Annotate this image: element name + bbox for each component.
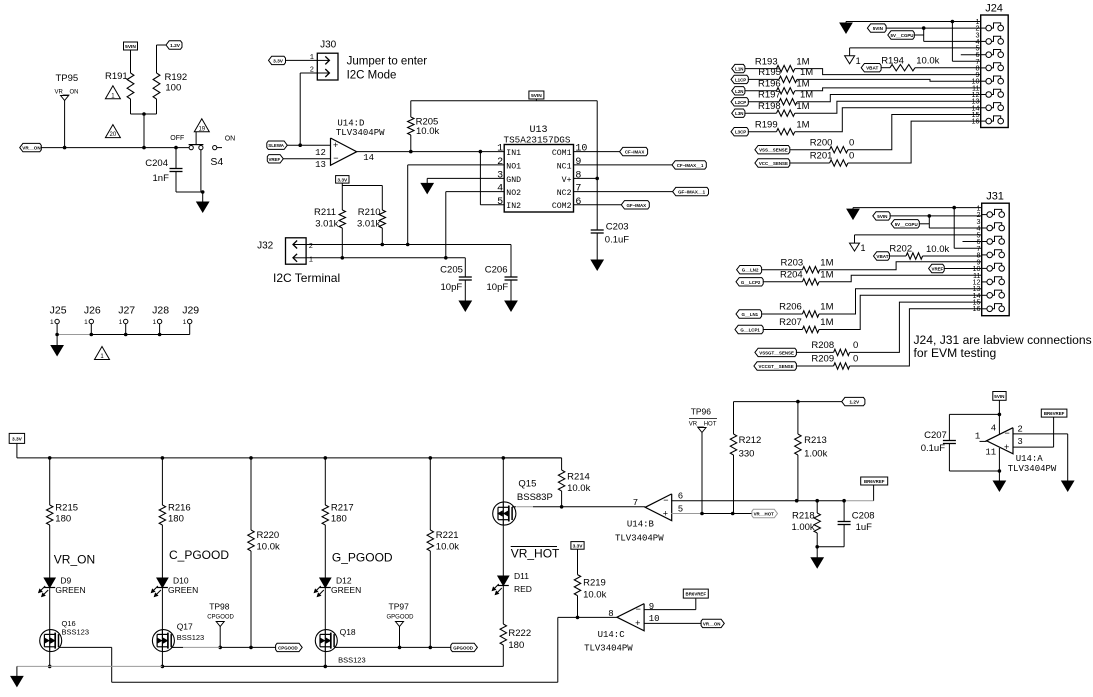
svg-text:VCC__SENSE: VCC__SENSE bbox=[759, 161, 788, 166]
svg-text:R212: R212 bbox=[739, 435, 762, 446]
svg-text:19: 19 bbox=[198, 126, 205, 132]
svg-text:10pF: 10pF bbox=[441, 282, 463, 293]
svg-text:Jumper to enter: Jumper to enter bbox=[347, 56, 428, 68]
svg-text:6: 6 bbox=[678, 491, 683, 501]
svg-text:8: 8 bbox=[575, 170, 581, 181]
svg-text:J24: J24 bbox=[985, 3, 1003, 15]
svg-text:1M: 1M bbox=[800, 90, 813, 101]
svg-text:J26: J26 bbox=[84, 305, 101, 317]
svg-text:10pF: 10pF bbox=[487, 282, 509, 293]
svg-text:VSSGT__SENSE: VSSGT__SENSE bbox=[759, 350, 794, 355]
svg-text:TLV3404PW: TLV3404PW bbox=[336, 128, 385, 138]
svg-text:Q17: Q17 bbox=[177, 622, 193, 632]
svg-text:1M: 1M bbox=[796, 56, 809, 67]
svg-text:1: 1 bbox=[310, 54, 314, 62]
svg-text:5: 5 bbox=[678, 504, 683, 514]
svg-text:100: 100 bbox=[165, 83, 181, 94]
svg-text:GREEN: GREEN bbox=[331, 585, 361, 595]
svg-text:14: 14 bbox=[363, 153, 374, 163]
svg-text:L3N: L3N bbox=[735, 111, 743, 116]
svg-text:VCCGT__SENSE: VCCGT__SENSE bbox=[759, 364, 794, 369]
svg-text:VREF: VREF bbox=[268, 157, 280, 162]
svg-text:C208: C208 bbox=[852, 511, 875, 522]
svg-text:180: 180 bbox=[168, 514, 184, 525]
svg-text:GREEN: GREEN bbox=[168, 585, 198, 595]
svg-text:7: 7 bbox=[575, 184, 581, 195]
svg-text:R209: R209 bbox=[811, 354, 834, 365]
svg-text:−: − bbox=[663, 495, 668, 505]
svg-text:VR__ON: VR__ON bbox=[703, 621, 721, 626]
svg-text:1M: 1M bbox=[800, 67, 813, 78]
svg-text:G_PGOOD: G_PGOOD bbox=[332, 551, 393, 565]
svg-text:RED: RED bbox=[514, 584, 532, 594]
svg-text:L1CP: L1CP bbox=[735, 77, 746, 82]
svg-text:C203: C203 bbox=[606, 222, 629, 233]
svg-text:J29: J29 bbox=[182, 305, 199, 317]
svg-text:C207: C207 bbox=[924, 430, 947, 441]
svg-text:CF−IMAX: CF−IMAX bbox=[625, 150, 644, 155]
svg-text:G__LCP2: G__LCP2 bbox=[741, 280, 761, 285]
svg-text:D11: D11 bbox=[514, 571, 529, 581]
svg-text:J28: J28 bbox=[152, 305, 169, 317]
svg-text:L1N: L1N bbox=[735, 67, 743, 72]
svg-text:TS5A23157DGS: TS5A23157DGS bbox=[504, 134, 571, 145]
svg-text:for EVM testing: for EVM testing bbox=[914, 346, 997, 360]
svg-text:COM2: COM2 bbox=[552, 202, 572, 211]
svg-text:R194: R194 bbox=[881, 56, 904, 67]
svg-text:BR6VREF: BR6VREF bbox=[1044, 411, 1065, 416]
svg-text:6: 6 bbox=[575, 197, 581, 208]
svg-text:1: 1 bbox=[856, 56, 861, 66]
svg-text:0.1uF: 0.1uF bbox=[921, 443, 945, 454]
svg-text:1M: 1M bbox=[820, 317, 833, 328]
svg-text:1M: 1M bbox=[820, 270, 833, 281]
svg-text:4: 4 bbox=[991, 424, 996, 434]
svg-text:5VIN: 5VIN bbox=[994, 394, 1005, 399]
svg-text:R220: R220 bbox=[257, 530, 280, 541]
svg-text:CPGOOD: CPGOOD bbox=[207, 615, 234, 621]
svg-text:1: 1 bbox=[84, 319, 88, 326]
svg-text:I2C Mode: I2C Mode bbox=[347, 70, 397, 82]
svg-text:1: 1 bbox=[183, 319, 187, 326]
svg-text:GREEN: GREEN bbox=[55, 585, 85, 595]
svg-text:10.0k: 10.0k bbox=[567, 483, 590, 494]
svg-text:BR6VREF: BR6VREF bbox=[864, 479, 885, 484]
svg-text:C204: C204 bbox=[145, 158, 168, 169]
svg-text:GF−IMAX: GF−IMAX bbox=[626, 203, 646, 208]
svg-text:R200: R200 bbox=[810, 137, 833, 148]
svg-text:J30: J30 bbox=[320, 40, 337, 51]
svg-text:1.00k: 1.00k bbox=[804, 449, 827, 460]
svg-text:1: 1 bbox=[975, 432, 980, 442]
svg-text:R195: R195 bbox=[758, 67, 781, 78]
svg-text:U14:A: U14:A bbox=[1016, 454, 1044, 464]
svg-text:BSS123: BSS123 bbox=[62, 628, 90, 637]
svg-text:3.01k: 3.01k bbox=[357, 219, 380, 230]
svg-text:BSS123: BSS123 bbox=[338, 656, 366, 665]
svg-text:R221: R221 bbox=[436, 530, 459, 541]
svg-text:3.01k: 3.01k bbox=[315, 219, 338, 230]
svg-text:U14:B: U14:B bbox=[627, 520, 655, 530]
svg-text:VR__HOT: VR__HOT bbox=[689, 422, 717, 428]
svg-text:G__LCP1: G__LCP1 bbox=[740, 328, 760, 333]
svg-text:R215: R215 bbox=[55, 503, 78, 514]
svg-text:R208: R208 bbox=[811, 340, 834, 351]
svg-text:J32: J32 bbox=[257, 241, 274, 252]
svg-text:5V__CGPU: 5V__CGPU bbox=[895, 222, 918, 227]
svg-text:BSS83P: BSS83P bbox=[517, 492, 553, 503]
svg-text:1M: 1M bbox=[796, 79, 809, 90]
svg-text:0.1uF: 0.1uF bbox=[605, 235, 629, 246]
svg-text:IN2: IN2 bbox=[506, 202, 521, 211]
svg-text:10.0k: 10.0k bbox=[257, 542, 280, 553]
svg-text:3.3V: 3.3V bbox=[573, 543, 584, 549]
svg-text:R192: R192 bbox=[165, 72, 188, 83]
svg-text:R217: R217 bbox=[331, 503, 354, 514]
svg-text:R199: R199 bbox=[755, 119, 778, 130]
svg-text:NC2: NC2 bbox=[557, 189, 572, 198]
svg-text:CF−IMAX__1: CF−IMAX__1 bbox=[677, 163, 704, 168]
svg-text:1: 1 bbox=[497, 144, 503, 155]
svg-text:−: − bbox=[1005, 428, 1010, 438]
svg-text:180: 180 bbox=[55, 514, 71, 525]
svg-text:R203: R203 bbox=[781, 257, 804, 268]
svg-text:VR__ON: VR__ON bbox=[55, 90, 79, 96]
svg-text:1: 1 bbox=[50, 319, 54, 326]
svg-text:1.2V: 1.2V bbox=[170, 43, 181, 49]
svg-text:TP98: TP98 bbox=[209, 602, 230, 612]
svg-text:180: 180 bbox=[508, 640, 524, 651]
svg-text:1: 1 bbox=[119, 319, 123, 326]
svg-text:1uF: 1uF bbox=[856, 522, 873, 533]
svg-text:9: 9 bbox=[649, 602, 654, 612]
svg-text:12: 12 bbox=[315, 148, 326, 158]
svg-text:COM1: COM1 bbox=[552, 149, 572, 158]
svg-text:TLV3404PW: TLV3404PW bbox=[584, 644, 633, 654]
svg-text:1: 1 bbox=[152, 319, 156, 326]
svg-text:5: 5 bbox=[497, 197, 503, 208]
svg-text:5VIN: 5VIN bbox=[873, 26, 884, 31]
svg-text:R211: R211 bbox=[314, 207, 336, 218]
svg-text:R202: R202 bbox=[889, 244, 912, 255]
svg-text:BR6VREF: BR6VREF bbox=[686, 592, 707, 597]
svg-text:10.0k: 10.0k bbox=[926, 244, 949, 255]
svg-text:L2N: L2N bbox=[735, 89, 743, 94]
svg-text:10.0k: 10.0k bbox=[436, 542, 459, 553]
svg-text:2: 2 bbox=[1017, 425, 1022, 435]
svg-text:R204: R204 bbox=[780, 270, 803, 281]
svg-text:3.3V: 3.3V bbox=[337, 177, 348, 183]
svg-text:J24, J31 are labview connectio: J24, J31 are labview connections bbox=[914, 333, 1092, 347]
svg-text:TLV3404PW: TLV3404PW bbox=[615, 534, 664, 544]
svg-text:V+: V+ bbox=[562, 176, 572, 185]
svg-text:R210: R210 bbox=[358, 207, 381, 218]
svg-text:5VIN: 5VIN bbox=[531, 93, 542, 99]
svg-text:R197: R197 bbox=[758, 90, 781, 101]
svg-text:VREF: VREF bbox=[932, 267, 944, 272]
svg-text:5VIN: 5VIN bbox=[877, 214, 888, 219]
svg-text:5V__CGPU: 5V__CGPU bbox=[891, 33, 914, 38]
svg-text:R216: R216 bbox=[168, 503, 191, 514]
svg-text:1.2V: 1.2V bbox=[849, 400, 860, 406]
svg-text:+: + bbox=[1004, 442, 1009, 452]
svg-text:L3CP: L3CP bbox=[735, 130, 746, 135]
svg-text:1M: 1M bbox=[820, 302, 833, 313]
svg-text:BSS123: BSS123 bbox=[177, 633, 205, 642]
svg-text:9: 9 bbox=[575, 157, 581, 168]
svg-text:R198: R198 bbox=[758, 101, 781, 112]
svg-text:1M: 1M bbox=[820, 257, 833, 268]
svg-text:U14:D: U14:D bbox=[337, 119, 364, 129]
svg-text:J31: J31 bbox=[986, 191, 1004, 203]
svg-text:1.00k: 1.00k bbox=[791, 522, 814, 533]
svg-text:10.0k: 10.0k bbox=[583, 590, 606, 601]
svg-text:20: 20 bbox=[110, 132, 117, 138]
svg-text:NC1: NC1 bbox=[557, 162, 572, 171]
svg-text:1nF: 1nF bbox=[153, 173, 170, 184]
svg-text:IN1: IN1 bbox=[506, 149, 521, 158]
svg-text:I2C Terminal: I2C Terminal bbox=[273, 271, 340, 285]
svg-text:NO1: NO1 bbox=[506, 162, 521, 171]
svg-text:+: + bbox=[635, 618, 640, 628]
svg-text:Q15: Q15 bbox=[518, 479, 536, 490]
svg-text:R213: R213 bbox=[804, 435, 827, 446]
svg-text:R191: R191 bbox=[105, 71, 128, 82]
svg-text:10.0k: 10.0k bbox=[916, 56, 939, 67]
svg-text:3: 3 bbox=[497, 170, 503, 181]
svg-text:R207: R207 bbox=[779, 317, 802, 328]
svg-text:7: 7 bbox=[633, 498, 638, 508]
svg-text:VR__ON: VR__ON bbox=[22, 146, 41, 151]
svg-text:180: 180 bbox=[331, 514, 347, 525]
svg-text:C205: C205 bbox=[440, 265, 463, 276]
svg-text:ON: ON bbox=[225, 136, 236, 143]
svg-text:VR_HOT: VR_HOT bbox=[511, 547, 560, 561]
svg-text:0: 0 bbox=[849, 151, 854, 162]
svg-text:G__LN1: G__LN1 bbox=[742, 312, 759, 317]
svg-text:3.3V: 3.3V bbox=[12, 436, 23, 442]
svg-text:TP97: TP97 bbox=[389, 602, 410, 612]
svg-text:0: 0 bbox=[853, 340, 858, 351]
svg-text:2: 2 bbox=[497, 157, 503, 168]
svg-text:5VIN: 5VIN bbox=[125, 44, 136, 50]
svg-text:3.3V: 3.3V bbox=[273, 58, 284, 64]
svg-text:TLV3404PW: TLV3404PW bbox=[1008, 464, 1057, 474]
svg-text:C_PGOOD: C_PGOOD bbox=[169, 548, 229, 562]
svg-text:11: 11 bbox=[985, 448, 996, 458]
svg-text:GND: GND bbox=[506, 176, 521, 185]
svg-text:VR__HOT: VR__HOT bbox=[754, 512, 775, 517]
svg-text:10: 10 bbox=[649, 614, 660, 624]
svg-text:R193: R193 bbox=[755, 56, 778, 67]
svg-text:1: 1 bbox=[861, 243, 866, 253]
svg-text:0: 0 bbox=[853, 354, 858, 365]
svg-text:L2CP: L2CP bbox=[735, 100, 746, 105]
svg-text:S4: S4 bbox=[210, 156, 223, 168]
svg-text:R206: R206 bbox=[779, 302, 802, 313]
svg-text:8: 8 bbox=[608, 609, 613, 619]
svg-text:+: + bbox=[333, 140, 338, 150]
svg-text:OFF: OFF bbox=[170, 135, 184, 142]
svg-text:1M: 1M bbox=[796, 119, 809, 130]
svg-text:Q18: Q18 bbox=[340, 627, 356, 637]
svg-text:13: 13 bbox=[315, 160, 326, 170]
svg-text:4: 4 bbox=[497, 184, 503, 195]
svg-text:G__LN2: G__LN2 bbox=[742, 268, 759, 273]
svg-text:−: − bbox=[636, 604, 641, 614]
svg-text:J25: J25 bbox=[50, 305, 67, 317]
svg-text:NO2: NO2 bbox=[506, 189, 521, 198]
svg-text:R201: R201 bbox=[810, 151, 833, 162]
svg-text:GPGOOD: GPGOOD bbox=[453, 645, 473, 650]
svg-text:R222: R222 bbox=[508, 628, 531, 639]
svg-text:10.0k: 10.0k bbox=[416, 126, 439, 137]
svg-text:−: − bbox=[333, 153, 338, 163]
svg-text:VR_ON: VR_ON bbox=[54, 553, 95, 567]
svg-text:U14:C: U14:C bbox=[598, 630, 626, 640]
svg-text:330: 330 bbox=[739, 449, 755, 460]
svg-text:SLEWA: SLEWA bbox=[268, 143, 284, 148]
svg-text:GPGOOD: GPGOOD bbox=[387, 615, 415, 621]
svg-text:VSS__SENSE: VSS__SENSE bbox=[759, 148, 788, 153]
svg-text:R219: R219 bbox=[583, 578, 606, 589]
svg-text:J27: J27 bbox=[118, 305, 135, 317]
svg-text:C206: C206 bbox=[485, 265, 508, 276]
svg-text:TP96: TP96 bbox=[691, 407, 712, 417]
svg-text:10: 10 bbox=[575, 144, 587, 155]
svg-text:R218: R218 bbox=[792, 511, 815, 522]
svg-text:VBAT: VBAT bbox=[866, 66, 878, 71]
svg-text:R196: R196 bbox=[758, 79, 781, 90]
svg-text:VBAT: VBAT bbox=[876, 254, 888, 259]
svg-text:0: 0 bbox=[849, 137, 854, 148]
svg-text:R214: R214 bbox=[567, 472, 590, 483]
svg-text:+: + bbox=[663, 508, 668, 518]
svg-text:TP95: TP95 bbox=[56, 73, 79, 84]
svg-text:GF−IMAX__1: GF−IMAX__1 bbox=[678, 190, 706, 195]
svg-text:CPGOOD: CPGOOD bbox=[278, 645, 298, 650]
svg-text:3: 3 bbox=[1017, 437, 1022, 447]
svg-text:1M: 1M bbox=[796, 101, 809, 112]
